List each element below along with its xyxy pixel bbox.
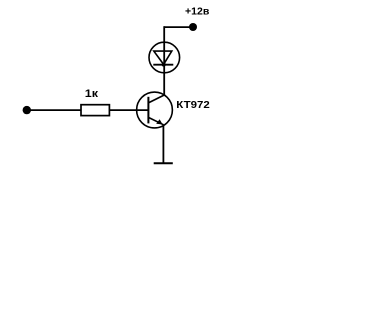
svg-text:КТ972: КТ972: [176, 99, 210, 111]
LED VD1 (diode in circle, anode up, cathode down): [149, 42, 180, 73]
wire: resistor R1 to transistor base: [110, 109, 148, 111]
node: input terminal dot: [23, 106, 31, 114]
node: +12v supply terminal dot: [189, 23, 197, 31]
wire: rail corner down to LED anode: [163, 26, 165, 43]
ground bar: [154, 162, 173, 164]
wire: +12v terminal to vertical rail corner: [164, 26, 190, 28]
wire: input terminal to resistor R1: [29, 109, 81, 111]
wire: LED cathode to transistor collector: [163, 73, 165, 95]
resistor R1 1к: [81, 105, 109, 116]
svg-text:+12в: +12в: [185, 7, 209, 18]
svg-text:1к: 1к: [85, 88, 99, 100]
wire: emitter down to ground: [162, 125, 164, 163]
transistor VT1 КТ972 (NPN in circle): [137, 92, 173, 128]
